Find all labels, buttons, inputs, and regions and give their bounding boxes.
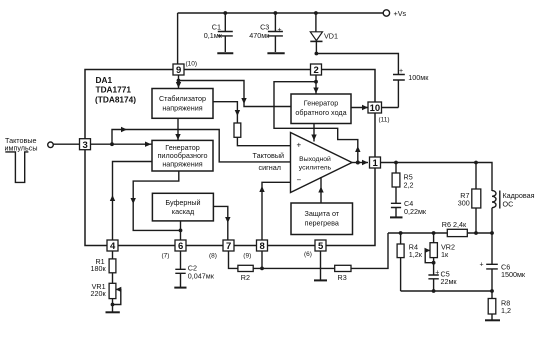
wire flyback loop pin2 to output node: [274, 82, 358, 163]
node R2/pin8: [260, 267, 264, 271]
svg-text:импульсы: импульсы: [5, 143, 38, 152]
node VR2 top: [432, 231, 436, 235]
svg-text:Буферный: Буферный: [165, 198, 200, 207]
resistor R8: [488, 291, 496, 320]
svg-text:усилитель: усилитель: [299, 165, 332, 172]
svg-text:обратного хода: обратного хода: [295, 108, 346, 117]
svg-text:Защита от: Защита от: [304, 209, 339, 218]
arrow into ген.пилообр. left: [145, 142, 151, 147]
svg-text:сигнал: сигнал: [259, 163, 281, 172]
block: Защита от перегрева: [291, 203, 353, 235]
terminal +Vs: [383, 10, 389, 16]
capacitor 100мк: [393, 75, 405, 108]
wire pin1 to output network: [381, 163, 492, 192]
capacitor C3: [268, 13, 283, 52]
svg-text:Выходной: Выходной: [299, 155, 331, 163]
pin 5: [315, 240, 326, 252]
ground C4: [390, 216, 403, 218]
capacitor C5: [428, 275, 438, 291]
svg-text:каскад: каскад: [172, 207, 195, 216]
inductor Кадровая ОС: [492, 191, 500, 234]
svg-text:ОС: ОС: [503, 199, 514, 208]
svg-text:(8): (8): [209, 252, 217, 259]
capacitor C4: [391, 203, 401, 216]
waveform clock pulse: [5, 152, 28, 183]
svg-text:0,047мк: 0,047мк: [188, 271, 215, 280]
svg-text:Стабилизатор: Стабилизатор: [159, 94, 206, 103]
node pin3 branch: [110, 142, 114, 146]
svg-text:перегрева: перегрева: [305, 219, 339, 228]
arrow down on that wire: [235, 110, 240, 116]
arrow right on clock wire: [121, 127, 127, 132]
wire буферный right to pin7: [214, 206, 228, 239]
potentiometer VR2: [425, 233, 438, 275]
node VR1 wiper: [111, 303, 115, 307]
wire bottom rail: [401, 290, 492, 292]
resistor R6: [447, 229, 467, 236]
wire буферный to pin6: [180, 221, 182, 240]
resistor internal: [234, 123, 241, 137]
ground C2: [174, 287, 186, 289]
wire VD1 node to cap 100мк: [316, 54, 398, 75]
arrow down at op-amp top edge: [311, 135, 316, 141]
arrow up on pin8 riser: [259, 186, 264, 192]
resistor R5: [392, 163, 400, 204]
ground C1: [217, 52, 233, 54]
svg-text:2: 2: [313, 65, 318, 76]
svg-text:22мк: 22мк: [441, 277, 458, 286]
ground C3: [267, 52, 284, 54]
arrow into стабилизатор: [176, 82, 181, 88]
svg-text:+: +: [297, 141, 302, 150]
node R5 top: [394, 161, 398, 165]
wire feedback rail y=233: [388, 232, 492, 234]
node VD1 cathode: [315, 52, 319, 56]
pin 1: [370, 157, 381, 169]
svg-text:+: +: [399, 68, 403, 75]
wire R1 to VR1: [112, 273, 114, 284]
svg-text:напряжения: напряжения: [162, 104, 202, 113]
arrow into pin10: [362, 105, 368, 110]
svg-text:1,2: 1,2: [501, 306, 511, 315]
capacitor C1: [218, 13, 233, 52]
wire pin4 to R1: [112, 252, 114, 259]
node pin9 branch: [177, 79, 181, 83]
svg-text:180к: 180к: [90, 264, 106, 273]
ground pin5: [314, 279, 327, 281]
wire ген.обр.хода right to pin10: [351, 107, 368, 109]
svg-text:7: 7: [226, 241, 231, 252]
arrow up on flyback drop: [355, 146, 360, 152]
node output: [356, 161, 360, 165]
svg-text:9: 9: [176, 65, 181, 76]
wire 100мк to pin 10: [381, 107, 398, 109]
node R7 bottom: [474, 231, 478, 235]
svg-text:0,22мк: 0,22мк: [404, 207, 427, 216]
wire input to pin 3: [53, 143, 79, 145]
wire ген.обр.хода bottom to op-amp: [313, 124, 315, 142]
svg-text:(11): (11): [379, 117, 390, 124]
svg-text:+: +: [480, 262, 484, 269]
arrow into ген.обр.хода top: [313, 88, 318, 94]
node pin6: [179, 229, 183, 233]
svg-text:VD1: VD1: [324, 32, 338, 41]
node rail-C1: [223, 11, 227, 15]
wire rail drop to pin 9: [177, 13, 179, 64]
op-amp U: Выходной усилитель: [291, 133, 353, 193]
resistor R4: [397, 233, 404, 291]
node VR2 wiper: [432, 261, 436, 265]
wire pin6 to C2: [180, 252, 182, 270]
svg-text:1: 1: [372, 158, 378, 169]
svg-text:Тактовый: Тактовый: [253, 151, 285, 160]
diode VD1: [310, 13, 322, 54]
wire internal resistor to op-amp + input: [237, 137, 290, 145]
wire R3 to feedback rail: [351, 233, 388, 268]
wire clock to output amp: [112, 130, 291, 162]
terminal input: [48, 142, 54, 148]
wire op-amp output to pin1: [352, 162, 368, 164]
ground R8: [485, 319, 500, 321]
wire pin4 riser to ген.пилообр.: [113, 162, 153, 240]
svg-text:4: 4: [110, 241, 116, 252]
svg-text:(10): (10): [186, 61, 198, 68]
svg-text:(7): (7): [162, 252, 170, 259]
svg-text:6: 6: [178, 241, 183, 252]
svg-text:10: 10: [370, 103, 381, 114]
wire ген.пилообр. bottom loop to pin6 node: [133, 171, 180, 230]
node R4 top: [399, 231, 403, 235]
wire pin9 to стабилизатор: [178, 76, 180, 89]
pin 8: [257, 240, 268, 252]
svg-text:1500мк: 1500мк: [501, 270, 526, 279]
node R7 top: [474, 161, 478, 165]
node C5 bottom: [432, 289, 436, 293]
wire pin8 drop: [261, 252, 263, 269]
svg-text:8: 8: [259, 241, 264, 252]
arrow down on loop: [131, 198, 136, 204]
capacitor C2: [175, 269, 185, 287]
svg-text:Генератор: Генератор: [304, 99, 338, 108]
arrow down to pin7: [225, 217, 230, 223]
svg-text:3: 3: [82, 140, 87, 151]
wire pin8 riser to op-amp minus: [262, 182, 291, 239]
pin 2: [311, 64, 322, 76]
arrow into pin1: [362, 160, 368, 165]
resistor R2: [238, 265, 253, 271]
arrow down on that wire: [241, 98, 246, 104]
arrow into ген.пилообр.: [175, 134, 180, 140]
svg-text:300: 300: [458, 199, 470, 208]
wire защита to op-amp: [320, 177, 322, 203]
svg-text:напряжения: напряжения: [162, 160, 202, 169]
svg-text:470мк: 470мк: [249, 31, 270, 40]
pin 3: [80, 139, 91, 151]
ground VR1: [106, 311, 120, 313]
wire pin3 to ген.пилообр.: [91, 143, 152, 145]
wire R2 node to R3: [253, 267, 335, 269]
svg-text:220к: 220к: [90, 289, 106, 298]
resistor R7: [472, 163, 481, 234]
wire pin7 to R2: [229, 252, 238, 269]
svg-text:+Vs: +Vs: [394, 9, 407, 18]
svg-text:(6): (6): [304, 251, 312, 258]
arrow up on pin4 riser: [110, 195, 115, 201]
node coil bottom: [490, 231, 494, 235]
svg-text:−: −: [297, 176, 302, 185]
wire стабилизатор right to internal resistor: [213, 102, 237, 123]
wire pin2 to ген.обр.хода: [315, 76, 317, 95]
capacitor C6: [486, 233, 498, 291]
IC DA1 outline: [85, 70, 375, 246]
potentiometer VR1: [109, 283, 121, 311]
arrow up on защита wire: [318, 187, 323, 193]
wire pin9 node to ген.обр.хода (left input): [179, 81, 292, 107]
svg-text:DA1: DA1: [96, 75, 113, 85]
block: Стабилизатор напряжения: [152, 89, 213, 119]
pin 7: [223, 240, 234, 252]
resistor R3: [335, 265, 351, 271]
block: Генератор обратного хода: [291, 94, 351, 124]
svg-text:100мк: 100мк: [408, 73, 429, 82]
svg-text:1,2к: 1,2к: [409, 250, 423, 259]
svg-text:R6 2,4к: R6 2,4к: [442, 220, 467, 229]
svg-text:1к: 1к: [441, 250, 449, 259]
resistor R1: [109, 259, 116, 273]
svg-text:R3: R3: [338, 273, 347, 282]
svg-text:(9): (9): [243, 252, 251, 259]
block: Буферный каскад: [152, 193, 213, 221]
pin 4: [107, 240, 118, 252]
wire стабилизатор to ген.пилообр.: [177, 118, 179, 140]
wire +Vs top rail: [178, 12, 383, 14]
svg-text:5: 5: [318, 241, 324, 252]
node pin2 branch: [314, 80, 318, 84]
node rail-C3: [274, 11, 278, 15]
svg-text:R2: R2: [241, 273, 250, 282]
wire pin5 ground: [320, 252, 322, 280]
svg-text:2,2: 2,2: [404, 180, 414, 189]
node rail-VD1: [314, 11, 318, 15]
svg-text:+: +: [435, 269, 439, 276]
svg-text:0,1мк: 0,1мк: [204, 31, 223, 40]
pin 9: [173, 64, 184, 76]
svg-text:+: +: [278, 27, 282, 34]
svg-text:(TDA8174): (TDA8174): [95, 95, 136, 105]
pin 10: [368, 102, 382, 114]
node C6/R8: [490, 289, 494, 293]
pin 6: [175, 240, 186, 252]
block: Генератор пилообразного напряжения: [152, 140, 213, 171]
svg-text:TDA1771: TDA1771: [96, 85, 132, 95]
